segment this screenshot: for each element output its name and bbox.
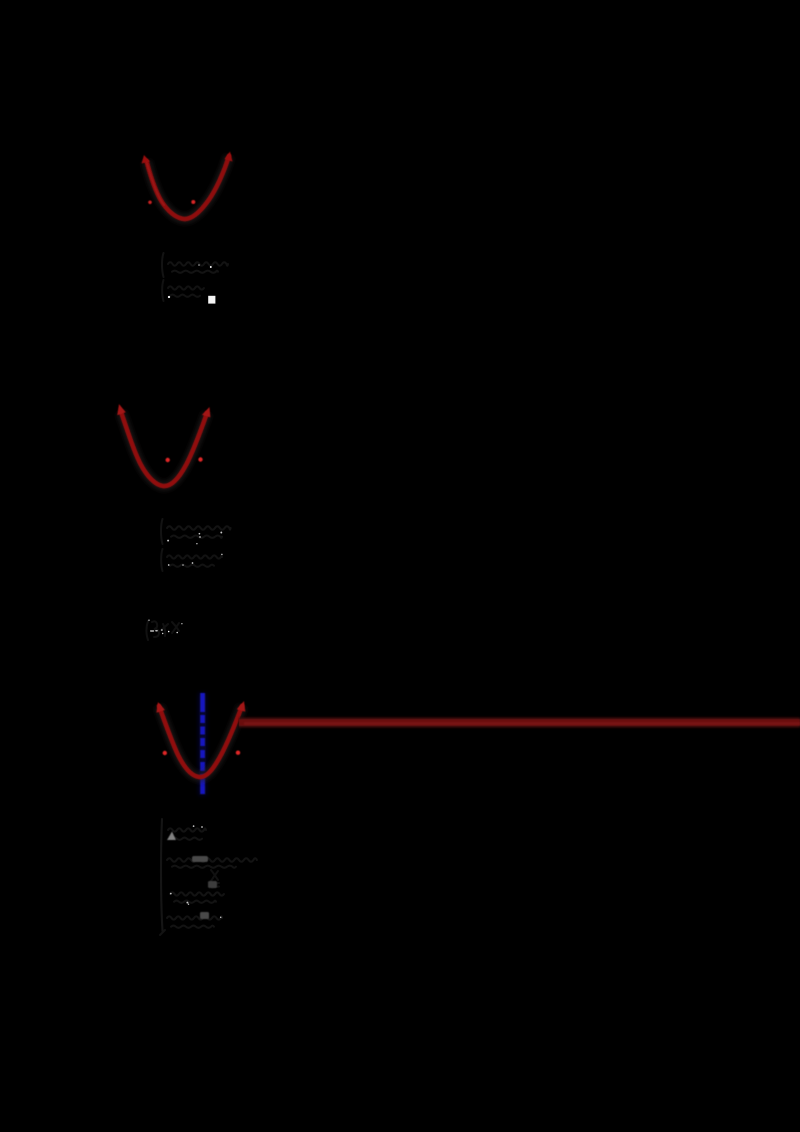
- gray block D mid: [208, 881, 217, 888]
- handwriting block A row 1: [162, 253, 228, 277]
- parabola 2 left arrowhead: [117, 404, 126, 415]
- parabola curve 3 (bottom sketch): [159, 706, 242, 777]
- parabola curve 1 (top sketch): [146, 156, 229, 219]
- handwriting block A row 2: [162, 280, 204, 301]
- bright equals marks block C: [148, 620, 182, 635]
- parabola curve 1 (top sketch) halo: [147, 156, 230, 219]
- white specks block D: [170, 825, 222, 918]
- text cursor (white block): [208, 296, 215, 304]
- parabola 3 left red dot: [163, 751, 167, 755]
- axis of symmetry (blue dashed) glow: [199, 693, 206, 795]
- light gray patch block D row 1: [167, 832, 176, 841]
- parabola 2 left red dot: [166, 458, 170, 462]
- parabola 1 left tip arrow: [142, 155, 151, 164]
- horizontal red line core highlight: [244, 722, 800, 725]
- handwriting block D row 2: [167, 858, 257, 868]
- parabola 3 right red dot: [236, 751, 240, 755]
- white specks block A: [168, 264, 212, 298]
- handwriting block D row 1: [168, 828, 206, 839]
- axis of symmetry (blue dashed vertical line): [200, 693, 205, 795]
- parabola 3 right arrowhead: [237, 701, 246, 712]
- long horizontal red line: [239, 719, 800, 726]
- handwriting block D row 4: [160, 916, 222, 935]
- gray patch block D row 4: [200, 912, 209, 919]
- parabola 1 right tip arrow: [225, 152, 233, 162]
- parabola curve 3 halo: [159, 706, 242, 777]
- handwriting block D row 3: [170, 892, 224, 902]
- parabola 3 left arrowhead: [156, 702, 165, 713]
- parabola 1 left red dot: [148, 201, 152, 205]
- handwriting block C (P=2 note): [147, 621, 180, 640]
- parabola curve 2 (middle sketch): [121, 412, 207, 486]
- white specks block B: [167, 532, 222, 566]
- handwriting block D margin line: [161, 819, 162, 931]
- handwriting block B row 2: [161, 549, 222, 571]
- parabola curve 2 halo: [121, 412, 207, 486]
- gray bar block D row 2: [192, 856, 208, 862]
- handwriting block D x= cluster: [211, 870, 219, 888]
- parabola 1 right red dot: [191, 200, 195, 204]
- long horizontal red line glow: [239, 718, 800, 728]
- parabola 2 right arrowhead: [202, 407, 211, 417]
- handwriting block B row 1: [161, 519, 231, 544]
- parabola 2 right red dot: [198, 457, 202, 461]
